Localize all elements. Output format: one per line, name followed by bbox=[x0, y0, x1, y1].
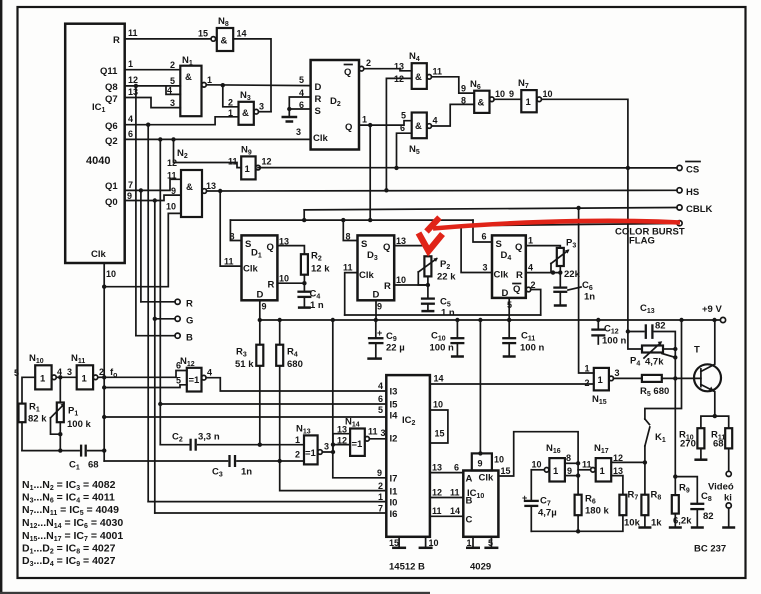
svg-text:6: 6 bbox=[378, 394, 383, 404]
wire N4 pin12 riser from HS line bbox=[384, 78, 412, 192]
svg-text:1: 1 bbox=[362, 115, 367, 125]
gate N10 bbox=[14, 353, 62, 389]
IC1 4040 counter bbox=[65, 24, 125, 263]
wire Q6 vertical corner to IC2 pin1 bbox=[148, 501, 386, 503]
svg-text:1: 1 bbox=[585, 364, 590, 374]
svg-text:100 n: 100 n bbox=[520, 343, 544, 354]
svg-text:100 n: 100 n bbox=[602, 336, 626, 347]
capacitor C10 100n bbox=[430, 318, 465, 357]
svg-text:1: 1 bbox=[600, 466, 606, 477]
gate N2 bbox=[166, 148, 216, 217]
gate N16 bbox=[532, 443, 573, 482]
svg-text:Videó: Videó bbox=[708, 482, 734, 493]
svg-text:11: 11 bbox=[343, 263, 353, 273]
svg-text:10: 10 bbox=[433, 400, 443, 410]
svg-text:4: 4 bbox=[207, 368, 212, 378]
svg-text:13: 13 bbox=[613, 466, 623, 476]
svg-text:82 k: 82 k bbox=[28, 414, 47, 425]
svg-text:68: 68 bbox=[713, 439, 724, 450]
flip-flop D2 bbox=[296, 60, 359, 150]
svg-text:10k: 10k bbox=[624, 518, 641, 529]
svg-text:9: 9 bbox=[509, 89, 514, 99]
capacitor C13 82 horizontal bbox=[626, 303, 676, 349]
wire IC2 pin10 to pin15 loop bbox=[430, 400, 448, 444]
svg-text:Clk: Clk bbox=[494, 270, 510, 281]
wire clk branch to N2 pin10 riser bbox=[104, 213, 181, 286]
svg-text:Clk: Clk bbox=[91, 249, 107, 260]
svg-text:CS: CS bbox=[686, 165, 699, 176]
svg-text:Q11: Q11 bbox=[100, 66, 118, 77]
resistor R3 51k bbox=[235, 320, 263, 445]
capacitor C11 100n bbox=[502, 318, 544, 357]
svg-text:2: 2 bbox=[366, 58, 371, 68]
B terminal wire bbox=[136, 333, 193, 344]
gate N12 bbox=[176, 356, 212, 392]
wire N16 output to C7 bbox=[531, 469, 544, 471]
wire IC10 Clk pin15 loop up to N16 junction bbox=[498, 432, 578, 476]
svg-text:7: 7 bbox=[128, 180, 133, 190]
vertical Q6 down to IC2 pin1 wire bbox=[147, 125, 149, 502]
IC10 ground pins 1 and 5 bbox=[466, 537, 498, 573]
svg-text:A: A bbox=[466, 474, 473, 485]
svg-text:1: 1 bbox=[295, 435, 300, 445]
svg-text:680: 680 bbox=[287, 359, 303, 370]
switch K1 bbox=[645, 318, 684, 463]
svg-text:+: + bbox=[377, 328, 382, 338]
svg-text:10: 10 bbox=[494, 455, 504, 465]
svg-text:&: & bbox=[185, 72, 192, 83]
svg-text:I7: I7 bbox=[390, 474, 398, 485]
wire D3 S riser to S line bbox=[343, 220, 357, 240]
svg-text:G: G bbox=[186, 316, 193, 327]
resistor R1 82k bbox=[19, 377, 48, 450]
svg-text:6: 6 bbox=[400, 123, 405, 133]
svg-text:15: 15 bbox=[198, 29, 208, 39]
wire IC2 pin5 line from f0 node bbox=[104, 415, 386, 418]
gate N8 bbox=[198, 16, 247, 51]
wire D1 R to R2 bottom node bbox=[277, 281, 306, 285]
gate N9 bbox=[228, 145, 272, 180]
svg-text:51 k: 51 k bbox=[235, 359, 254, 370]
wire R line IC1 pin11 to N8 input bbox=[125, 38, 211, 40]
svg-text:1: 1 bbox=[526, 97, 532, 108]
svg-text:CBLK: CBLK bbox=[686, 204, 713, 215]
svg-text:11: 11 bbox=[433, 67, 443, 77]
flip-flop D4 bbox=[482, 232, 536, 311]
wire D4 R to P3 bottom node bbox=[526, 270, 563, 274]
svg-text:Clk: Clk bbox=[243, 264, 259, 275]
svg-text:I1: I1 bbox=[390, 487, 399, 498]
Video out terminals bbox=[708, 471, 735, 527]
svg-text:11: 11 bbox=[432, 506, 442, 516]
flip-flop D1 bbox=[224, 232, 289, 312]
svg-text:7: 7 bbox=[378, 504, 383, 514]
potentiometer P4 4.7k horizontal bbox=[628, 332, 678, 379]
CBLK line to terminal bbox=[304, 206, 677, 210]
wire D2 Q drop to S line bbox=[368, 125, 372, 222]
svg-text:11: 11 bbox=[167, 171, 177, 181]
svg-text:S: S bbox=[496, 239, 502, 250]
vertical Q1 to R terminal bbox=[140, 190, 142, 301]
terminal +9V bbox=[702, 304, 726, 323]
IC2 14512B bbox=[377, 375, 430, 537]
svg-text:R5 680: R5 680 bbox=[640, 386, 669, 398]
wire Q1 line IC1 pin7 jog to N2 pin11 bbox=[125, 179, 181, 192]
wire Q0 vertical corner to IC2 pin7 bbox=[155, 512, 386, 514]
wire N8 output down to N3 output node bbox=[233, 39, 271, 112]
gate N5 bbox=[400, 113, 438, 157]
svg-text:9: 9 bbox=[127, 191, 132, 201]
svg-text:82: 82 bbox=[655, 321, 666, 332]
wire D3 Q to P2 top bbox=[394, 246, 428, 257]
svg-text:6: 6 bbox=[482, 232, 487, 242]
capacitor C8 82 bbox=[675, 477, 713, 528]
svg-text:1k: 1k bbox=[651, 518, 662, 529]
svg-text:S: S bbox=[315, 106, 321, 117]
line A D3 Clk to D4 Qbar bbox=[345, 314, 541, 316]
svg-text:10: 10 bbox=[532, 460, 542, 470]
svg-text:Q: Q bbox=[267, 242, 274, 253]
potentiometer P1 100k bbox=[51, 377, 92, 453]
svg-text:1: 1 bbox=[528, 236, 533, 246]
flip-flop D3 bbox=[343, 232, 406, 312]
svg-text:11: 11 bbox=[228, 157, 238, 167]
svg-text:1n: 1n bbox=[241, 467, 252, 478]
wire D2 Q to N5 pin5 bbox=[359, 111, 412, 128]
svg-text:4,7k: 4,7k bbox=[645, 357, 664, 368]
svg-text:&: & bbox=[242, 108, 249, 119]
wire N6 output to N7 pin9 bbox=[494, 89, 521, 99]
svg-text:22 k: 22 k bbox=[437, 272, 456, 283]
wire N7 output right and down to CS junction then C13 node bbox=[542, 99, 631, 331]
svg-text:14: 14 bbox=[450, 506, 460, 516]
red annotation arrow to P2 bbox=[419, 218, 681, 252]
svg-text:5: 5 bbox=[14, 368, 19, 378]
svg-text:2: 2 bbox=[585, 378, 590, 388]
svg-text:82: 82 bbox=[703, 511, 714, 522]
svg-text:R: R bbox=[186, 299, 193, 310]
svg-text:9: 9 bbox=[461, 84, 466, 94]
wire IC2 pin11 to IC10 C bbox=[430, 506, 463, 516]
svg-text:12: 12 bbox=[128, 75, 138, 85]
wire N14 output to IC2 pin3 bbox=[368, 427, 386, 439]
R terminal wire bbox=[141, 299, 193, 310]
gate N6 bbox=[461, 79, 505, 113]
svg-text:1: 1 bbox=[82, 374, 88, 385]
svg-text:D1...D2 = IC8 = 4027: D1...D2 = IC8 = 4027 bbox=[22, 543, 116, 556]
svg-text:9: 9 bbox=[377, 302, 382, 312]
resistor R5 680 horizontal bbox=[640, 375, 701, 398]
capacitor C9 22u electrolytic bbox=[367, 320, 404, 359]
svg-text:N7...N11 = IC5 = 4049: N7...N11 = IC5 = 4049 bbox=[22, 504, 119, 517]
gate N11 bbox=[71, 353, 104, 389]
svg-text:3: 3 bbox=[259, 102, 264, 112]
svg-text:12: 12 bbox=[432, 488, 442, 498]
wire D4 Clk riser bbox=[461, 226, 492, 273]
svg-text:&: & bbox=[186, 182, 193, 193]
svg-text:1: 1 bbox=[553, 466, 559, 477]
svg-text:4: 4 bbox=[433, 116, 438, 126]
wire N5 pin6 riser from CS line bbox=[394, 133, 411, 170]
wire N2 output drop to D1 Clk bbox=[220, 191, 241, 266]
gate N3 bbox=[228, 90, 271, 125]
svg-text:=1: =1 bbox=[352, 439, 364, 450]
svg-text:3,3 n: 3,3 n bbox=[198, 432, 220, 443]
svg-text:1: 1 bbox=[598, 375, 604, 386]
wire D2 Qbar to N4 pin13 bbox=[359, 58, 412, 71]
svg-text:ki: ki bbox=[724, 493, 732, 504]
svg-text:Q: Q bbox=[513, 284, 520, 295]
svg-text:6,2k: 6,2k bbox=[673, 516, 692, 527]
svg-text:5: 5 bbox=[401, 111, 406, 121]
wire N10 output to N11 input bbox=[56, 367, 76, 379]
wire CBLK riser down to N15 pin1 bbox=[579, 208, 594, 373]
svg-text:I2: I2 bbox=[390, 434, 398, 445]
vertical Q0 down through G to IC2 pin7 wire bbox=[153, 201, 157, 514]
svg-text:10: 10 bbox=[543, 89, 553, 99]
svg-text:9: 9 bbox=[567, 466, 572, 476]
S line D1.S to D4.S bbox=[230, 218, 473, 222]
svg-text:=1: =1 bbox=[189, 375, 201, 386]
svg-text:1: 1 bbox=[128, 59, 133, 69]
svg-text:10: 10 bbox=[106, 269, 116, 279]
svg-text:Q6: Q6 bbox=[105, 121, 118, 132]
wire Q8 line IC1 pin12 to N1 pin5 bbox=[125, 84, 181, 88]
G terminal wire bbox=[155, 316, 194, 327]
svg-text:Q: Q bbox=[383, 242, 390, 253]
wire Q7 line IC1 pin13 jog to N1 pin3 bbox=[125, 98, 181, 108]
gate N7 bbox=[518, 78, 553, 112]
svg-text:180 k: 180 k bbox=[585, 506, 609, 517]
svg-text:3: 3 bbox=[483, 263, 488, 273]
svg-text:T: T bbox=[694, 345, 700, 356]
svg-text:5: 5 bbox=[170, 76, 175, 86]
potentiometer P3 22k bbox=[551, 238, 581, 281]
HS line from N2 output to terminal bbox=[207, 189, 677, 193]
svg-text:D: D bbox=[373, 290, 380, 301]
svg-text:I5: I5 bbox=[390, 400, 399, 411]
CBLK line riser from S line bbox=[302, 210, 306, 222]
svg-text:Clk: Clk bbox=[313, 133, 329, 144]
wire D3 Clk jog down to line A bbox=[345, 273, 358, 315]
svg-text:B: B bbox=[186, 333, 193, 344]
svg-text:10: 10 bbox=[429, 538, 439, 548]
svg-text:+9 V: +9 V bbox=[702, 304, 722, 315]
wire f0 branch to N12 pin5 bbox=[104, 385, 187, 388]
svg-text:Clk: Clk bbox=[479, 473, 495, 484]
wire N17 pin12 to K1 node bbox=[611, 460, 647, 464]
svg-text:5: 5 bbox=[299, 75, 304, 85]
svg-text:D: D bbox=[502, 288, 509, 299]
svg-text:1: 1 bbox=[378, 492, 383, 502]
svg-text:10: 10 bbox=[279, 274, 289, 284]
svg-text:13: 13 bbox=[206, 181, 216, 191]
svg-text:R: R bbox=[516, 270, 523, 281]
COLOR BURST FLAG line from D4 Clk riser to terminal bbox=[461, 223, 677, 225]
capacitor C1 68 in oscillator bottom wire bbox=[22, 445, 104, 472]
svg-text:6: 6 bbox=[176, 361, 181, 371]
wire N15 output to R5 bbox=[614, 377, 642, 379]
svg-text:5: 5 bbox=[488, 538, 493, 548]
svg-text:13: 13 bbox=[337, 425, 347, 435]
wire N1 pin4 jog from Q8 line bbox=[166, 86, 180, 95]
wire D1 S riser to S line bbox=[230, 220, 241, 240]
legend text bbox=[22, 479, 123, 568]
svg-text:11: 11 bbox=[450, 488, 460, 498]
BC 237 label bbox=[694, 544, 726, 555]
svg-text:10: 10 bbox=[396, 275, 406, 285]
IC2 ground pins 15 and 10 bbox=[389, 537, 439, 573]
capacitor C7 4.7u electrolytic bbox=[522, 470, 557, 532]
vertical Q2 down to C2 wire bbox=[158, 139, 162, 444]
oscillator bottom wire C7 R6 R7 bbox=[531, 515, 623, 531]
wire D4 Qbar to line A bbox=[526, 287, 541, 315]
svg-text:N1...N2 = IC3 = 4082: N1...N2 = IC3 = 4082 bbox=[22, 479, 116, 492]
svg-text:&: & bbox=[221, 36, 228, 47]
svg-text:100 k: 100 k bbox=[67, 419, 91, 430]
svg-text:6: 6 bbox=[454, 463, 459, 473]
svg-text:22 µ: 22 µ bbox=[386, 343, 405, 354]
wire N17 pin13 to R7 bbox=[611, 476, 623, 495]
svg-text:15: 15 bbox=[501, 466, 511, 476]
svg-text:4: 4 bbox=[528, 263, 533, 273]
svg-text:Q7: Q7 bbox=[105, 94, 118, 105]
svg-text:10: 10 bbox=[166, 202, 176, 212]
svg-text:15: 15 bbox=[389, 538, 399, 548]
svg-text:Q: Q bbox=[515, 242, 522, 253]
wire IC2 pin6 line from Q2 vertical bbox=[160, 403, 386, 405]
gate N14 bbox=[337, 417, 369, 456]
wire P4 node down to R9 and C8 bbox=[673, 378, 677, 478]
wire D3 R to P2 bottom node bbox=[394, 283, 430, 287]
wire Q11 line IC1 pin1 to N1 pin2 bbox=[125, 69, 181, 71]
svg-text:5: 5 bbox=[176, 376, 181, 386]
wire f0 to N12 pin6 bbox=[104, 371, 187, 378]
svg-text:2: 2 bbox=[228, 98, 233, 108]
svg-text:Q: Q bbox=[344, 67, 351, 78]
svg-text:1: 1 bbox=[40, 374, 46, 385]
svg-text:I4: I4 bbox=[390, 411, 399, 422]
capacitor C3 1n bbox=[104, 455, 304, 479]
wire N4 output to N6 pin9 bbox=[432, 77, 475, 93]
f0 vertical from IC1 clk junction through N11 out to C3 corner bbox=[98, 287, 107, 461]
wire N1 output to D2 D pin with branch to N3 pin2 bbox=[206, 83, 310, 107]
svg-text:R: R bbox=[384, 281, 391, 292]
svg-text:13: 13 bbox=[432, 463, 442, 473]
wire Q2 line IC1 pin6 to D2 Clk bbox=[125, 137, 311, 141]
svg-text:4: 4 bbox=[378, 381, 383, 391]
wire Q0 line IC1 pin9 jog to N2 pin9 bbox=[125, 195, 181, 203]
gate N1 bbox=[167, 55, 212, 116]
svg-text:N15...N17 = IC7 = 4001: N15...N17 = IC7 = 4001 bbox=[22, 530, 123, 543]
svg-text:10: 10 bbox=[495, 89, 505, 99]
capacitor C12 100n bbox=[591, 318, 626, 347]
svg-text:9: 9 bbox=[478, 459, 483, 469]
svg-text:2: 2 bbox=[378, 481, 383, 491]
wire D4 D pin down to rail bbox=[507, 298, 511, 322]
svg-text:Q2: Q2 bbox=[105, 136, 118, 147]
svg-text:=1: =1 bbox=[305, 448, 317, 459]
wire Q6 line IC1 pin4 jog to N3 pin1 bbox=[125, 117, 239, 127]
wire N12 output to IC2 pin4 line bbox=[206, 378, 386, 391]
capacitor C4 1n bbox=[297, 283, 324, 311]
svg-text:15: 15 bbox=[435, 429, 445, 439]
svg-text:14: 14 bbox=[434, 374, 444, 384]
svg-text:D: D bbox=[315, 82, 322, 93]
IC1 pin numbers bbox=[106, 28, 138, 279]
wire D3 D pin down to rail bbox=[374, 300, 378, 322]
wire N16 pins 8 and 9 tied to vertical bbox=[565, 461, 580, 495]
svg-text:8: 8 bbox=[566, 453, 571, 463]
svg-text:3: 3 bbox=[615, 368, 620, 378]
wire IC2 pin12 to IC10 B bbox=[430, 488, 463, 498]
svg-text:1 n: 1 n bbox=[310, 300, 324, 311]
svg-text:11: 11 bbox=[128, 28, 138, 38]
svg-text:BC 237: BC 237 bbox=[694, 544, 726, 555]
CS line from N9 output to terminal bbox=[258, 167, 677, 169]
terminal CS bbox=[677, 162, 700, 176]
wire D1 D pin down to rail bbox=[258, 300, 262, 322]
terminal CBLK bbox=[677, 204, 713, 215]
svg-text:Q1: Q1 bbox=[105, 181, 118, 192]
resistor R7 10k bbox=[619, 490, 640, 529]
svg-text:4: 4 bbox=[128, 114, 133, 124]
wire D2 S-R bracket to ground bbox=[287, 97, 311, 116]
svg-text:12: 12 bbox=[167, 158, 177, 168]
svg-text:1 n: 1 n bbox=[441, 308, 455, 319]
svg-text:R: R bbox=[315, 94, 322, 105]
svg-text:I6: I6 bbox=[390, 509, 398, 520]
svg-text:HS: HS bbox=[686, 187, 699, 198]
gate N17 bbox=[582, 443, 623, 482]
wire D4 Q to P3 top bbox=[526, 246, 561, 248]
svg-text:N12...N14 = IC6 = 4030: N12...N14 = IC6 = 4030 bbox=[22, 517, 123, 530]
terminal HS bbox=[677, 187, 699, 198]
wire D1 Q to R2 top bbox=[277, 246, 304, 255]
svg-text:FLAG: FLAG bbox=[629, 236, 655, 247]
f0 node label bbox=[110, 367, 117, 379]
svg-text:Q: Q bbox=[345, 122, 352, 133]
svg-text:13: 13 bbox=[394, 62, 404, 72]
gate N15 bbox=[585, 364, 620, 407]
svg-text:100 n: 100 n bbox=[430, 343, 454, 354]
resistor R10 270 bbox=[679, 416, 715, 460]
wire D4 S riser bbox=[473, 220, 492, 242]
resistor R2 12k bbox=[301, 251, 330, 284]
svg-text:2: 2 bbox=[295, 450, 300, 460]
capacitor C2 3.3n bbox=[160, 432, 304, 451]
svg-text:Q8: Q8 bbox=[105, 82, 118, 93]
svg-text:I0: I0 bbox=[390, 498, 398, 509]
capacitor C5 1n bbox=[421, 285, 455, 319]
svg-text:270: 270 bbox=[680, 439, 696, 450]
svg-text:3: 3 bbox=[170, 98, 175, 108]
wire N5 output to N6 pin8 bbox=[432, 104, 475, 126]
svg-text:1: 1 bbox=[207, 75, 212, 85]
svg-text:R: R bbox=[268, 280, 275, 291]
resistor R9 6.2k bbox=[669, 477, 692, 528]
svg-text:9: 9 bbox=[171, 186, 176, 196]
svg-text:1: 1 bbox=[245, 164, 251, 175]
svg-text:R: R bbox=[113, 35, 120, 46]
svg-text:D3...D4 = IC9 = 4027: D3...D4 = IC9 = 4027 bbox=[22, 555, 116, 568]
resistor R8 1k bbox=[638, 462, 662, 528]
svg-text:14512 B: 14512 B bbox=[389, 562, 425, 573]
svg-text:8: 8 bbox=[461, 96, 466, 106]
svg-text:2: 2 bbox=[170, 60, 175, 70]
svg-text:13: 13 bbox=[396, 236, 406, 246]
svg-text:&: & bbox=[478, 98, 485, 109]
